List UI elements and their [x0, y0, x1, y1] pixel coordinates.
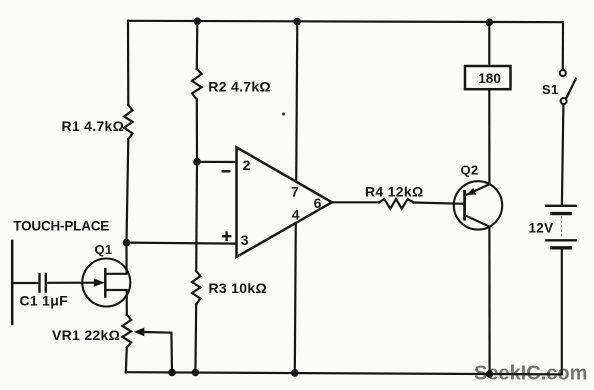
transistor Q1 source lead: [106, 290, 127, 315]
resistor 180 box outline: [465, 66, 511, 89]
wire bottom rail: [126, 372, 562, 374]
node junction dot: center rail / bottom rail: [291, 369, 299, 377]
wire R2 bottom to pin2 node: [196, 99, 198, 161]
wire Q2 bottom to bottom rail: [488, 227, 490, 374]
wire top-right corner down to S1: [562, 22, 564, 70]
svg-text:R1 4.7kΩ: R1 4.7kΩ: [62, 118, 125, 134]
battery B1 long plate 2: [546, 239, 575, 241]
transistor Q2 base bar: [463, 191, 466, 219]
svg-text:C1 1μF: C1 1μF: [20, 292, 69, 308]
transistor Q1 channel bar: [104, 269, 107, 296]
transistor Q2 circle: [454, 181, 502, 229]
svg-text:VR1 22kΩ: VR1 22kΩ: [52, 327, 120, 343]
transistor Q1 drain lead: [106, 243, 127, 274]
wire C1 to Q1 gate: [47, 282, 98, 284]
wire S1 lower terminal to battery +: [562, 104, 564, 205]
svg-text:R3 10kΩ: R3 10kΩ: [209, 280, 267, 296]
svg-text:S1: S1: [542, 82, 559, 97]
wire center rail lower (op-amp pin 4 to bottom rail): [295, 223, 296, 373]
svg-text:3: 3: [241, 232, 249, 248]
svg-text:Q2: Q2: [461, 162, 479, 177]
wire VR1 bottom to bottom rail corner: [126, 347, 127, 372]
potentiometer VR1 wiper arrowhead: [134, 328, 145, 337]
svg-text:12V: 12V: [529, 220, 554, 235]
svg-text:4: 4: [292, 207, 300, 223]
svg-text:7: 7: [291, 183, 299, 199]
wire top rail to 180-box: [488, 22, 490, 66]
resistor R4 body: [379, 199, 414, 209]
svg-text:Q1: Q1: [95, 242, 113, 257]
transistor Q2 emitter diagonal (upper): [465, 184, 490, 195]
wire battery - to bottom rail: [561, 250, 563, 375]
svg-text:180: 180: [478, 71, 501, 86]
transistor Q2 emitter arrowhead: [467, 188, 477, 195]
svg-text:R2 4.7kΩ: R2 4.7kΩ: [208, 78, 271, 94]
svg-text:TOUCH-PLACE: TOUCH-PLACE: [13, 219, 109, 234]
wire pin 3 input from node A: [127, 243, 236, 244]
wire left rail upper (top rail to R1 top): [127, 21, 130, 105]
wire R3 bottom to bottom rail: [194, 304, 197, 372]
switch S1 terminal circle lower: [561, 98, 567, 104]
wire R1 bottom to node A: [127, 139, 129, 242]
node junction dot: R2/R3 divider tap to pin 2: [193, 158, 201, 166]
node junction dot: top rail / R2 rail: [194, 17, 202, 25]
transistor Q2 collector diagonal (lower): [465, 215, 490, 226]
wire op-amp output to R4: [332, 201, 379, 203]
wire VR1 wiper to bottom rail: [144, 332, 173, 372]
transistor Q1 gate arrowhead: [94, 279, 105, 287]
capacitor C1 plate 1: [38, 274, 40, 292]
battery B1 short plate 1: [552, 212, 570, 215]
resistor R2 body: [192, 69, 202, 99]
switch S1 terminal circle upper: [560, 70, 566, 76]
stray scan speck: [282, 112, 285, 115]
op-amp non-inverting input plus sign (horizontal): [222, 235, 232, 237]
touch plate electrode: [11, 241, 14, 324]
battery B1 short plate 2: [552, 246, 570, 249]
capacitor C1 plate 2: [45, 274, 47, 292]
wire center rail upper (top rail to op-amp pin 7): [296, 21, 297, 181]
resistor R3 body: [192, 271, 200, 304]
node junction dot: wiper / bottom rail: [168, 369, 176, 377]
node junction dot: Q2 / bottom rail: [486, 370, 494, 378]
node junction dot: R3 / bottom rail: [192, 369, 200, 377]
wire pin2 node down to R3 top: [195, 162, 198, 271]
op-amp non-inverting input plus sign (vertical): [225, 231, 227, 241]
potentiometer VR1 body: [122, 315, 131, 348]
node junction dot: top rail / 180 branch: [486, 19, 494, 27]
svg-text:6: 6: [314, 195, 322, 211]
op-amp inverting input minus sign: [222, 170, 231, 172]
wire divider rail upper (top rail to R2 top): [196, 21, 199, 69]
wire 180-box to Q2 top: [488, 89, 490, 184]
battery B1 long plate 1: [546, 205, 575, 207]
svg-text:2: 2: [243, 157, 251, 173]
node junction dot A: Q1 drain / R1 / pin3 wire: [123, 239, 131, 247]
wire touch plate to C1: [12, 282, 38, 284]
battery B1 inter-cell dotted link: [561, 217, 563, 239]
resistor R1 body: [124, 105, 132, 139]
svg-text:R4 12kΩ: R4 12kΩ: [365, 184, 423, 200]
wire R4 to Q2 base: [414, 203, 465, 204]
switch S1 blade: [566, 79, 576, 99]
op-amp U1 triangle: [237, 147, 332, 257]
wire top supply rail: [128, 21, 563, 22]
transistor Q1 circle: [82, 259, 130, 307]
wire pin 2 input: [197, 161, 236, 163]
node junction dot: top rail / center rail: [294, 18, 302, 26]
